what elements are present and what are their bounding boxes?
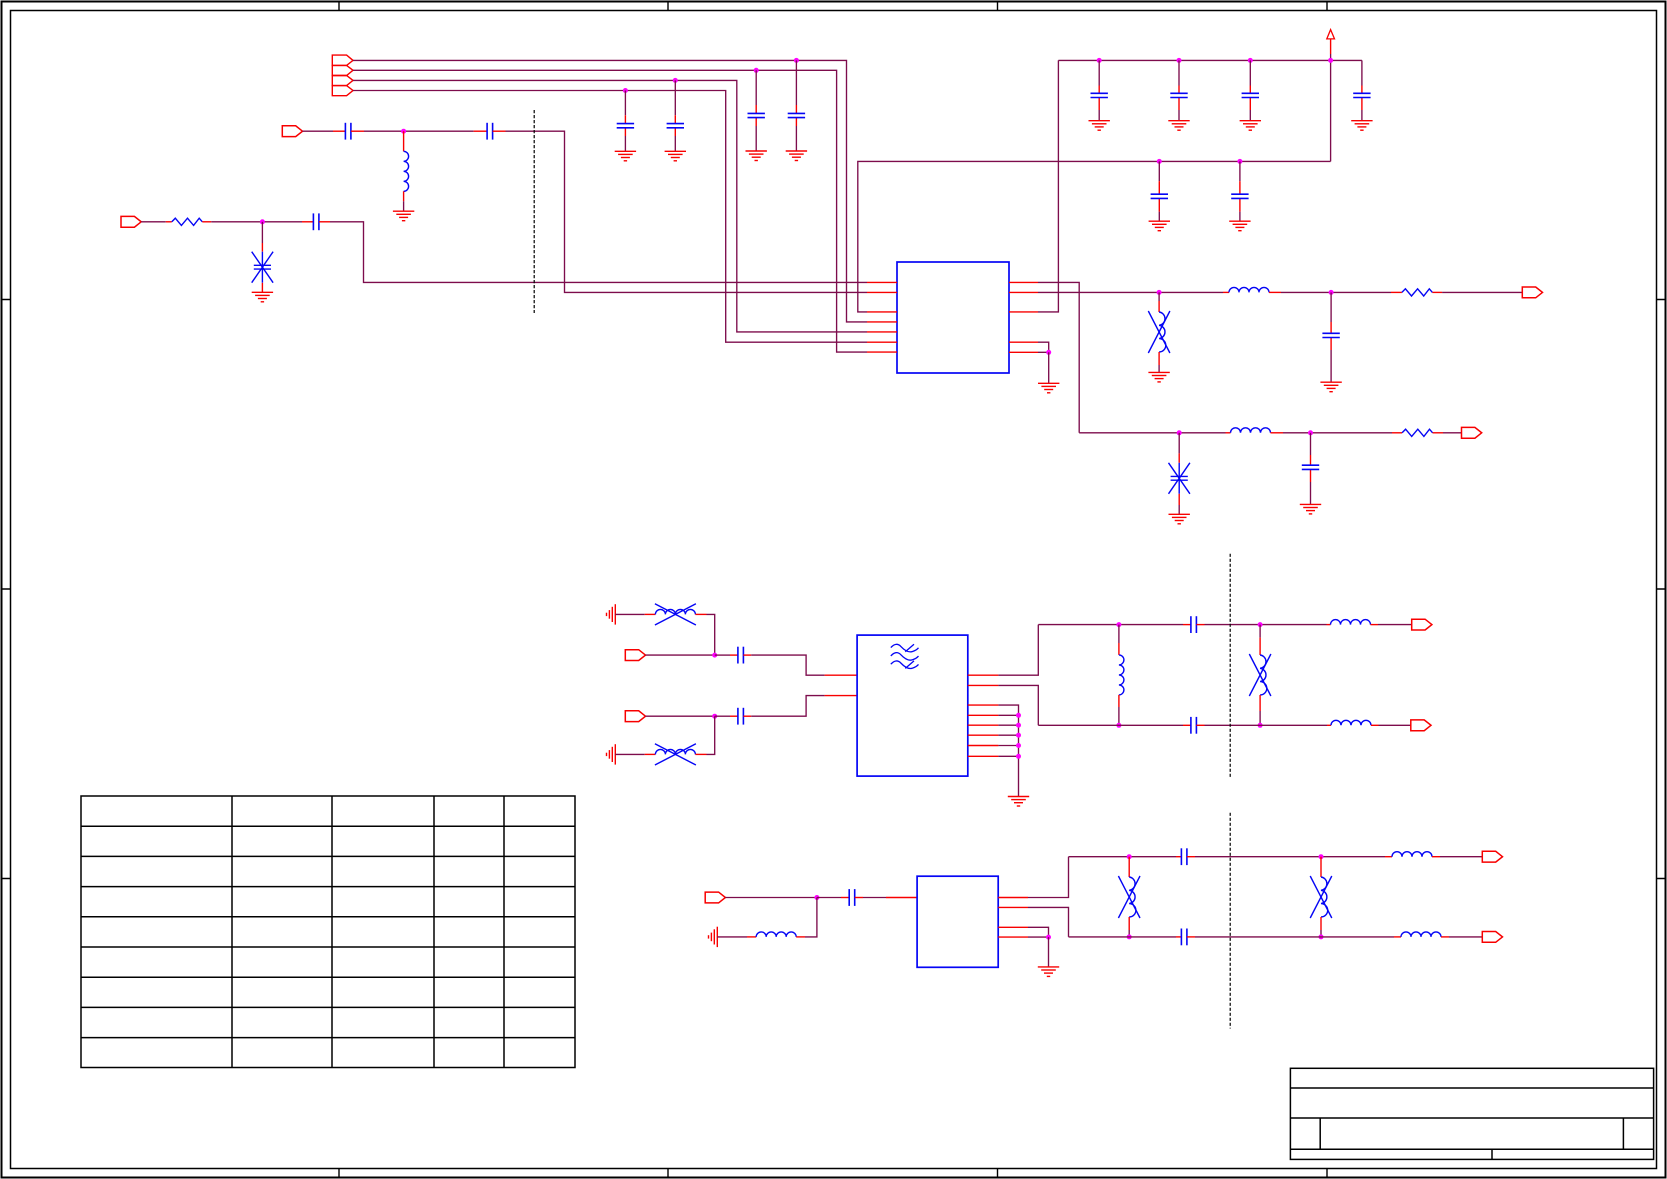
- wire bottom lower to port: [1449, 936, 1482, 938]
- U1 right pin stubs: [1009, 282, 1038, 352]
- node mid xcoil bottom: [1258, 723, 1263, 728]
- node line 1 shunt tap: [1157, 290, 1162, 295]
- node xcoil A top: [1127, 854, 1132, 859]
- ground for C1: [615, 151, 636, 161]
- title block cell dividers: [1320, 1118, 1623, 1159]
- inductor L1: [404, 131, 409, 211]
- wire bus line 2 to U1 pin 7: [353, 70, 867, 352]
- node B: [260, 219, 265, 224]
- dashed partition line 1: [533, 110, 535, 313]
- wire bus line 4 to U1 pin 6: [353, 91, 867, 343]
- port P6: [1522, 287, 1542, 298]
- node A: [401, 129, 406, 134]
- port P7: [1462, 427, 1482, 438]
- capacitor C8: [1091, 60, 1108, 120]
- wire mid bottom centre: [1205, 724, 1328, 726]
- wire C6 to U1 pin 2: [506, 131, 868, 292]
- wire line 1 to port: [1442, 291, 1522, 293]
- node tie 5: [1016, 754, 1021, 759]
- port P9: [1411, 720, 1431, 731]
- wire bus line 1 to U1 pin 4: [353, 60, 867, 322]
- dashed partition line 2: [1229, 554, 1231, 778]
- node mid xcoil top: [1258, 622, 1263, 627]
- dashed partition line 3: [1229, 813, 1231, 1029]
- title block row lines: [1290, 1088, 1653, 1149]
- wire U3 pin 3 to ground node: [1028, 927, 1049, 937]
- wire L6 to node D: [707, 716, 715, 754]
- node line 2 shunt tap: [1177, 430, 1182, 435]
- ground for C3: [746, 151, 767, 161]
- capacitor C4: [788, 60, 805, 151]
- capacitor C10: [1242, 60, 1259, 120]
- node C9 tap: [1177, 58, 1182, 63]
- capacitor C2: [667, 80, 684, 151]
- inductor L7: [1119, 625, 1124, 726]
- wire bus line 3 to U1 pin 5: [353, 80, 867, 332]
- wire line 2 to port: [1443, 432, 1462, 434]
- tunable inductor L6: [615, 744, 706, 765]
- capacitor C13: [1231, 161, 1248, 221]
- wire bottom lower wire centre: [1195, 936, 1394, 938]
- ground for C13: [1229, 221, 1250, 231]
- capacitor C14: [1322, 292, 1339, 382]
- wire P4 to node D: [646, 715, 715, 717]
- node C10 tap: [1248, 58, 1253, 63]
- wire U1 pin 1 down to output line 2: [1038, 282, 1079, 432]
- wire power bus lower to U1 pin 3: [858, 161, 1331, 312]
- wire L5 to node C: [707, 614, 715, 655]
- ground U3: [1038, 967, 1059, 977]
- wire U3 pin 1 to bottom top wire: [1028, 857, 1069, 898]
- tunable inductor L8: [1249, 625, 1271, 726]
- table column lines: [232, 796, 504, 1068]
- ground for C11: [1351, 121, 1372, 131]
- port P4: [625, 711, 645, 722]
- ground for C15: [1300, 504, 1321, 514]
- U1 left pin stubs: [867, 282, 897, 352]
- capacitor C15: [1302, 433, 1319, 504]
- wire output line 1 left: [1038, 291, 1223, 293]
- capacitor C5: [345, 123, 351, 140]
- node xcoil B top: [1319, 854, 1324, 859]
- wire C16 to FL1 pin IN1: [751, 655, 857, 675]
- wire C7 to U1 pin 1: [330, 222, 867, 283]
- resistor R2: [1391, 289, 1442, 296]
- wire mid bottom to port: [1379, 724, 1411, 726]
- wire bottom top wire centre: [1195, 856, 1385, 858]
- chassis ground 2: [607, 744, 616, 764]
- node E: [814, 895, 819, 900]
- capacitor C22: [1176, 929, 1195, 946]
- capacitor C19: [1183, 717, 1205, 734]
- capacitor C20: [817, 889, 863, 906]
- inductor L11: [717, 932, 805, 937]
- wire FL1 ground tie: [998, 705, 1018, 796]
- wire FL1 out lower: [998, 685, 1038, 725]
- ground U1: [1038, 383, 1059, 393]
- node D: [712, 714, 717, 719]
- ground for D2: [1169, 514, 1190, 524]
- tunable inductor L2: [1148, 292, 1170, 372]
- node line 2 cap tap: [1308, 430, 1313, 435]
- wire bottom top to port: [1440, 856, 1482, 858]
- inductor L15: [1394, 932, 1449, 937]
- node on bus line 1: [794, 58, 799, 63]
- inductor L14: [1385, 852, 1440, 857]
- wire P2 to R1: [141, 221, 172, 223]
- U3 right pin stubs: [998, 898, 1028, 938]
- port P11: [1482, 932, 1502, 943]
- wire U1 pin 4 to pin 5 junction: [1038, 342, 1049, 352]
- capacitor C11: [1353, 60, 1370, 120]
- wire to U3 ground: [1048, 937, 1050, 967]
- ground for C8: [1089, 121, 1110, 131]
- ground for L2: [1148, 372, 1169, 382]
- wire bottom lower wire left: [1069, 936, 1177, 938]
- node mid shunt bottom: [1116, 723, 1121, 728]
- node mid shunt top: [1116, 622, 1121, 627]
- capacitor C3: [748, 70, 765, 151]
- table row lines: [81, 826, 575, 1037]
- title block frame: [1290, 1068, 1653, 1159]
- port P10: [1482, 851, 1502, 862]
- node tie 1: [1016, 713, 1021, 718]
- ground for C10: [1240, 121, 1261, 131]
- capacitor C12: [1151, 161, 1168, 221]
- wire mid top left: [1038, 624, 1183, 626]
- ground for C14: [1320, 382, 1341, 392]
- IC U1: [897, 262, 1009, 373]
- wire line 2 middle: [1283, 432, 1392, 434]
- capacitor C7: [302, 213, 330, 230]
- connector J1 (4-way sheet entry): [332, 55, 353, 96]
- node U3 ground junction: [1046, 935, 1051, 940]
- wire power bus upper: [1058, 59, 1362, 61]
- wire C20 to U3: [863, 897, 917, 899]
- inductor L10: [1327, 720, 1379, 725]
- wire bottom top wire left: [1069, 856, 1177, 858]
- wire power rail vertical: [1330, 54, 1332, 161]
- node C13 tap: [1237, 159, 1242, 164]
- ground for L1: [393, 211, 414, 221]
- port P5: [705, 892, 725, 903]
- node power tap: [1328, 58, 1333, 63]
- node line 1 cap tap: [1329, 290, 1334, 295]
- node on bus line 4: [623, 88, 628, 93]
- node C: [712, 653, 717, 658]
- tunable inductor L12: [1118, 857, 1140, 937]
- node C8 tap: [1097, 58, 1102, 63]
- ground for C4: [786, 151, 807, 161]
- wire C17 to FL1 pin IN2: [751, 696, 857, 717]
- node on bus line 2: [754, 68, 759, 73]
- zone ticks top: [339, 2, 1327, 10]
- wire P1 to C5: [303, 130, 346, 132]
- capacitor C21: [1176, 848, 1195, 865]
- FL1 right pin stubs: [968, 675, 999, 756]
- node U1 ground junction: [1046, 350, 1051, 355]
- ground for D1: [252, 292, 273, 302]
- port P2: [121, 216, 141, 227]
- zone ticks right: [1657, 300, 1665, 879]
- port P3: [625, 650, 645, 661]
- node tie 4: [1016, 743, 1021, 748]
- wire P3 to node C: [646, 654, 715, 656]
- inductor L3: [1223, 287, 1281, 292]
- capacitor C9: [1170, 60, 1187, 120]
- filter FL1: [857, 635, 968, 776]
- zone ticks bottom: [339, 1169, 1327, 1177]
- node xcoil B bottom: [1319, 934, 1324, 939]
- node xcoil A bottom: [1127, 934, 1132, 939]
- inductor L4: [1226, 428, 1284, 433]
- capacitor C6: [474, 123, 506, 140]
- wire output line 2 left: [1079, 432, 1225, 434]
- resistor R3: [1392, 429, 1443, 436]
- TVS D2: [1169, 433, 1190, 514]
- power symbol VCC: [1327, 30, 1335, 54]
- wire mid top to port: [1378, 624, 1412, 626]
- wire R1 to node B: [202, 221, 302, 223]
- wire mid bottom left: [1038, 724, 1183, 726]
- table frame: [81, 796, 575, 1068]
- wire FL1 out upper: [998, 625, 1038, 676]
- wire U3 pin 2 to bottom lower wire: [1028, 907, 1069, 937]
- tunable inductor L5: [615, 604, 706, 625]
- inductor L9: [1327, 620, 1379, 625]
- wire line 1 middle: [1281, 291, 1391, 293]
- capacitor C18: [1183, 616, 1205, 633]
- wire to U1 ground: [1048, 352, 1050, 383]
- wire C5 to node A: [351, 130, 474, 132]
- node tie 3: [1016, 733, 1021, 738]
- wire mid top centre: [1205, 624, 1327, 626]
- port P8: [1412, 619, 1432, 630]
- capacitor C16: [715, 647, 752, 664]
- ground FL1: [1008, 797, 1029, 807]
- wire P5 to node E: [725, 897, 817, 899]
- zone ticks left: [2, 300, 10, 879]
- node tie 2: [1016, 723, 1021, 728]
- capacitor C1: [617, 91, 634, 152]
- ground for C9: [1168, 121, 1189, 131]
- port P1: [282, 126, 302, 137]
- wire L11 to node E: [805, 898, 817, 937]
- chassis ground 1: [607, 604, 616, 624]
- TVS D1: [252, 222, 273, 292]
- ground for C2: [665, 151, 686, 161]
- capacitor C17: [715, 708, 752, 725]
- node on bus line 3: [673, 78, 678, 83]
- resistor R1: [172, 218, 203, 225]
- node C12 tap: [1157, 159, 1162, 164]
- IC U3: [917, 876, 998, 967]
- tunable inductor L13: [1310, 857, 1332, 937]
- ground for C12: [1149, 221, 1170, 231]
- chassis ground 3: [709, 927, 718, 947]
- wire U1 pin 3 to power bus upper: [1038, 60, 1058, 312]
